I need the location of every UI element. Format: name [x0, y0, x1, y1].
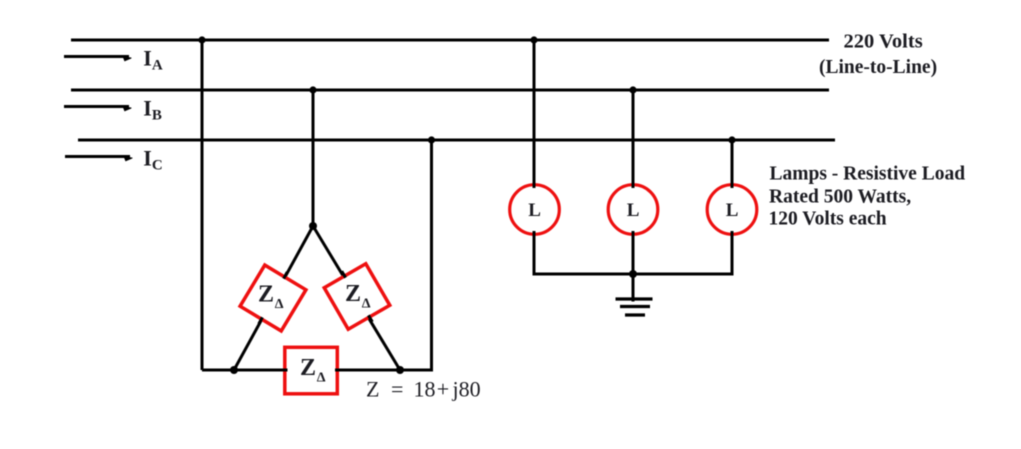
- ground bar 3: [625, 313, 645, 316]
- wire stub over right box bottom border: [368, 315, 372, 322]
- svg-text:L: L: [528, 200, 541, 221]
- wire stub over bottom box right border: [335, 369, 340, 372]
- wire lamp 3 top drop: [731, 140, 734, 188]
- wire stub over lamp 1 ring bottom: [533, 231, 536, 237]
- wire lamp 2 bottom drop: [632, 232, 635, 274]
- wire vertical from phase B to delta apex: [312, 90, 315, 226]
- impedance box ZΔ bottom: [285, 347, 338, 394]
- wire delta right leg: [313, 226, 400, 370]
- lamp L3: [707, 185, 757, 235]
- wire phase A bus: [71, 39, 829, 42]
- wire stub over lamp 1 ring top: [533, 183, 536, 189]
- wire vertical from phase C to delta bottom-right corner: [430, 140, 433, 370]
- svg-text:L: L: [627, 200, 640, 221]
- svg-text:Δ: Δ: [275, 297, 284, 312]
- wire delta left leg: [234, 226, 313, 370]
- wire stub over bottom box left border: [283, 369, 288, 372]
- junction dot delta bottom-right: [396, 366, 404, 374]
- svg-text:Z: Z: [258, 282, 274, 308]
- wire stub over lamp 3 ring bottom: [731, 231, 734, 237]
- wire stub over lamp 2 ring top: [632, 183, 635, 189]
- wire stub over lamp 3 ring top: [731, 183, 734, 189]
- wire lamp bottom bus: [533, 273, 734, 276]
- svg-text:120 Volts each: 120 Volts each: [769, 209, 887, 230]
- svg-text:220 Volts: 220 Volts: [844, 31, 923, 53]
- svg-text:IA: IA: [143, 46, 163, 74]
- wire lamp 1 top drop: [533, 40, 536, 188]
- wire stub over left box bottom border: [259, 317, 263, 324]
- svg-text:Lamps - Resistive Load: Lamps - Resistive Load: [770, 164, 966, 185]
- svg-text:IB: IB: [143, 96, 162, 124]
- junction dot delta apex: [309, 222, 317, 230]
- wire lamp 3 bottom drop: [731, 232, 734, 274]
- junction dot lamp bus / ground: [629, 270, 637, 278]
- svg-text:Z: Z: [300, 355, 316, 381]
- wire delta bottom bus: [202, 369, 433, 372]
- impedance box ZΔ right (rotated): [324, 264, 390, 330]
- wire phase C bus: [78, 139, 835, 142]
- ground bar 1: [616, 297, 653, 300]
- wire vertical from phase A to delta bottom-left corner: [201, 40, 204, 370]
- lamp L1: [510, 185, 560, 235]
- wire stub over lamp 2 ring bottom: [632, 231, 635, 237]
- junction dot phase B / delta apex vertical: [309, 86, 316, 93]
- junction dot delta bottom-left: [230, 366, 238, 374]
- svg-text:Z: Z: [345, 281, 361, 307]
- svg-text:L: L: [726, 200, 739, 221]
- svg-text:(Line-to-Line): (Line-to-Line): [819, 57, 937, 78]
- junction dot phase A / lamp 1: [530, 36, 537, 43]
- lamp L2: [608, 185, 658, 235]
- svg-text:IC: IC: [143, 146, 162, 174]
- junction dot phase C / lamp 3: [728, 136, 735, 143]
- svg-text:Rated 500 Watts,: Rated 500 Watts,: [769, 187, 911, 208]
- junction dot phase B / lamp 2: [629, 86, 636, 93]
- current arrow IC: [65, 156, 133, 161]
- svg-text:Z=18+j80: Z=18+j80: [366, 377, 481, 402]
- wire lamp 2 top drop: [632, 90, 635, 188]
- wire stub over left box top border: [284, 272, 288, 279]
- svg-text:Δ: Δ: [317, 371, 326, 386]
- ground bar 2: [620, 305, 650, 308]
- current arrow IB: [64, 106, 132, 111]
- wire lamp 1 bottom drop: [533, 232, 536, 274]
- current arrow IA: [64, 56, 132, 61]
- impedance box ZΔ left (rotated): [240, 265, 306, 331]
- svg-text:Δ: Δ: [362, 297, 371, 312]
- wire stub over right box top border: [342, 271, 346, 278]
- junction dot phase A / left delta vertical: [198, 36, 205, 43]
- wire phase B bus: [71, 89, 829, 92]
- ground stem: [632, 274, 635, 302]
- junction dot phase C / right delta vertical: [428, 136, 435, 143]
